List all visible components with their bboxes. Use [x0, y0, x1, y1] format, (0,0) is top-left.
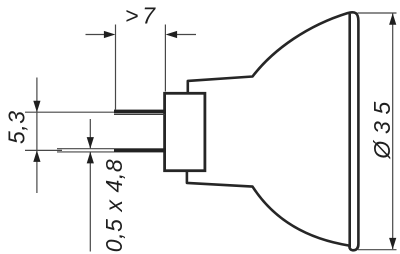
- extension line from top pin centerline (5,3 upper): [25, 111, 114, 113]
- lamp ceramic base block: [165, 93, 205, 170]
- arrow down tip at bottom pin top edge (0,5): [87, 137, 94, 149]
- lamp reflector bell and neck outline: [187, 12, 359, 250]
- bottom contact pin: [114, 148, 166, 152]
- top contact pin bottom edge line: [114, 114, 165, 116]
- lamp front rim line: [348, 14, 351, 247]
- arrow up tip at bottom pin (5,3): [33, 150, 40, 162]
- arrow up tip at top extension (diameter 35): [389, 13, 396, 25]
- extension line left (&gt;7): [115, 25, 117, 110]
- extension line bottom (diameter 35): [358, 249, 397, 251]
- extension line top (diameter 35): [358, 12, 397, 14]
- svg-text:Ø35: Ø35: [369, 101, 395, 159]
- arrow down tip at bottom extension (diameter 35): [389, 238, 396, 250]
- svg-text:5,3: 5,3: [4, 111, 30, 144]
- svg-text:>7: >7: [125, 2, 156, 28]
- top contact pin: [114, 110, 166, 114]
- arrow down tip at top pin (5,3): [33, 101, 40, 113]
- arrow left-pointing (&gt;7): [166, 31, 178, 38]
- bottom pin lower edge extension line (0,5): [57, 151, 114, 153]
- arrow up tip at bottom pin lower edge (0,5): [87, 152, 94, 164]
- extension line right (&gt;7): [164, 25, 166, 92]
- dimension line left segment (&gt;7): [86, 34, 105, 36]
- dimension line 0,5 upper part: [89, 119, 91, 148]
- extension line from bottom pin centerline (5,3 lower): [25, 149, 62, 151]
- bottom pin upper edge extension line (0,5): [57, 148, 114, 150]
- dimension line 5,3: [36, 78, 38, 194]
- arrow right-pointing (&gt;7): [104, 31, 116, 38]
- dimension line 0,5 lower part: [89, 152, 91, 252]
- dimension line right segment (&gt;7): [177, 34, 196, 36]
- svg-text:0,5 x 4,8: 0,5 x 4,8: [101, 159, 127, 252]
- dimension line diameter 35: [392, 14, 394, 250]
